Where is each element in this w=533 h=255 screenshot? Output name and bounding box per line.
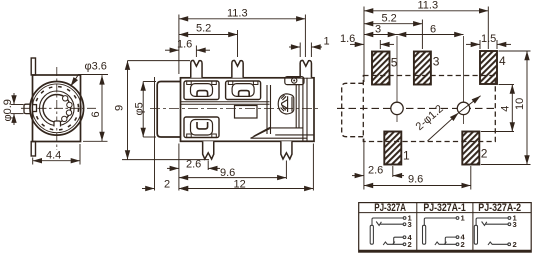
angled support bracket (251, 127, 303, 138)
internal square block (235, 106, 258, 119)
bottom pin 2 (281, 141, 292, 159)
dim 10 (footprint height) (481, 51, 531, 165)
pad 4 (480, 51, 506, 84)
wire to terminal 4 (445, 237, 456, 244)
svg-text:2: 2 (461, 240, 465, 249)
dim 9 (side height) (122, 61, 209, 160)
dim 9.6 (footprint) (364, 166, 471, 190)
svg-text:1: 1 (403, 149, 410, 163)
svg-text:2.6: 2.6 (368, 165, 383, 177)
front view centerline horizontal (21, 107, 97, 109)
dimension 6 (front height) (83, 75, 108, 141)
svg-text:2: 2 (408, 240, 412, 249)
rim circle (32, 84, 81, 133)
svg-text:11.3: 11.3 (227, 8, 248, 20)
internal wall lines (267, 85, 271, 134)
dim 3 (footprint) (364, 34, 397, 36)
inner sleeve circle (40, 91, 75, 126)
svg-text:6: 6 (430, 24, 436, 36)
svg-text:3: 3 (513, 220, 517, 229)
side view centerline (150, 108, 320, 110)
pad 2 (462, 132, 488, 165)
svg-text:5: 5 (391, 56, 398, 70)
pad 1 (384, 132, 410, 165)
footprint barrel dashed outline (342, 83, 364, 136)
svg-text:5.2: 5.2 (196, 23, 211, 35)
bottom pin 1 (203, 141, 214, 159)
svg-text:φ5: φ5 (134, 102, 146, 115)
ring spring contact (488, 242, 508, 245)
ring spring contact (383, 242, 403, 245)
tip contact bumps inside hole (62, 96, 73, 122)
dim 1.5 (footprint pad4) (466, 40, 511, 49)
svg-text:9.6: 9.6 (220, 167, 235, 179)
pad 3 (414, 52, 440, 85)
svg-text:5.2: 5.2 (382, 13, 397, 25)
outer barrel circle (30, 82, 84, 136)
svg-text:3: 3 (433, 55, 440, 69)
bottom notch on sleeve circle (54, 121, 61, 127)
dimension phi3.6 (71, 75, 108, 87)
contact housing bottom-left (184, 117, 219, 138)
svg-text:φ0.9: φ0.9 (2, 99, 14, 121)
wire to terminal 3 (486, 223, 508, 225)
dim 12 (side overall) (179, 144, 314, 191)
tip spring contact v (482, 222, 487, 226)
svg-text:2: 2 (164, 179, 170, 191)
barrel cylinder (157, 82, 180, 138)
front view bottom mounting tab (31, 142, 35, 157)
dim phi5 (barrel) (143, 82, 156, 138)
svg-text:φ3.6: φ3.6 (85, 61, 107, 73)
side body rectangle (181, 78, 315, 142)
wire to terminal 3 (380, 223, 403, 225)
table frame (359, 203, 532, 253)
right channel walls (296, 78, 307, 142)
svg-text:12: 12 (234, 179, 246, 191)
mounting hole right (457, 102, 469, 114)
knurled ring (35, 87, 78, 130)
switch tick (393, 242, 395, 245)
dim 5.2 (side) (179, 30, 238, 57)
front view body square (33, 75, 81, 142)
mounting hole left (391, 102, 403, 114)
svg-text:2: 2 (481, 147, 488, 161)
svg-text:3: 3 (408, 220, 412, 229)
top pin 2 (232, 60, 243, 77)
svg-text:PJ-327A-1: PJ-327A-1 (423, 202, 465, 214)
svg-text:1: 1 (324, 36, 330, 48)
hole circle phi3.6 (43, 95, 71, 123)
top pin 3 (300, 60, 311, 77)
sleeve bar 2 (423, 225, 426, 244)
schematic cell PJ-327A (370, 217, 406, 246)
dim 1.6 (footprint) (350, 40, 394, 49)
svg-text:1.6: 1.6 (177, 39, 192, 51)
switch tick (444, 242, 446, 245)
switch pivot tab (285, 77, 304, 85)
svg-text:3: 3 (375, 24, 381, 36)
ring spring contact (435, 242, 456, 245)
dim 9.6 (side bottom) (179, 144, 287, 191)
contact housing top-right (226, 81, 261, 100)
dimension phi0.9 (side pin) (11, 93, 24, 125)
dimension 4.4 (front width) (33, 144, 80, 165)
dim 11.3 (footprint) (364, 7, 488, 83)
svg-text:4.4: 4.4 (46, 150, 61, 162)
dim 2.6 (footprint) (352, 139, 404, 190)
dim 6 (footprint) (397, 34, 464, 36)
schematic cell PJ-327A-2 (474, 217, 510, 246)
schematic cell PJ-327A-1 (423, 217, 459, 246)
svg-text:6: 6 (90, 111, 102, 117)
sleeve pin notch at left edge (33, 105, 37, 112)
contact housing top-left (184, 81, 219, 100)
svg-text:10: 10 (514, 98, 526, 110)
front view top mounting tab (31, 58, 35, 75)
svg-text:2.6: 2.6 (186, 158, 201, 170)
footprint centerline horizontal (337, 107, 497, 109)
svg-text:PJ-327A-2: PJ-327A-2 (478, 202, 521, 214)
front view centerline vertical (56, 67, 58, 150)
internal slot lines (181, 102, 270, 105)
pad 5 (372, 52, 398, 85)
svg-text:11.3: 11.3 (418, 0, 439, 12)
wire to terminal 1 (424, 218, 456, 225)
phi0.9 side pin bump (24, 104, 30, 113)
svg-text:2: 2 (513, 240, 517, 249)
svg-text:4: 4 (500, 106, 512, 112)
sleeve bar 1 (370, 225, 373, 244)
switch pivot circle (292, 78, 297, 83)
tip spring contact v (376, 222, 381, 226)
svg-text:4: 4 (499, 54, 506, 68)
dim 11.3 (side top) (179, 15, 306, 75)
svg-text:1.5: 1.5 (481, 33, 496, 45)
dim 5.2 (footprint) (364, 20, 422, 50)
sleeve bar 3 (474, 225, 477, 244)
footprint body dashed outline (363, 76, 495, 142)
wire to terminal 1 (372, 218, 403, 225)
wire to terminal 4 (394, 237, 403, 244)
svg-text:1.6: 1.6 (340, 33, 355, 45)
dim 1.6 (side) (165, 46, 210, 58)
wire to terminal 1 (476, 218, 508, 225)
dim 4 (footprint gap) (481, 85, 514, 132)
lower internal ledge lines (251, 135, 314, 138)
dim 1 (side pin width) (289, 43, 322, 58)
hole centerline verticals (397, 36, 464, 124)
svg-text:9.6: 9.6 (408, 174, 423, 186)
dim 2 (barrel length) (142, 77, 191, 191)
dim 2.6 (side bottom) (167, 161, 220, 171)
top pin 1 (191, 60, 202, 77)
switch cam follower (278, 94, 294, 114)
2-phi1.2 leader (428, 96, 481, 141)
svg-text:9: 9 (114, 105, 126, 111)
svg-text:PJ-327A: PJ-327A (374, 202, 406, 214)
